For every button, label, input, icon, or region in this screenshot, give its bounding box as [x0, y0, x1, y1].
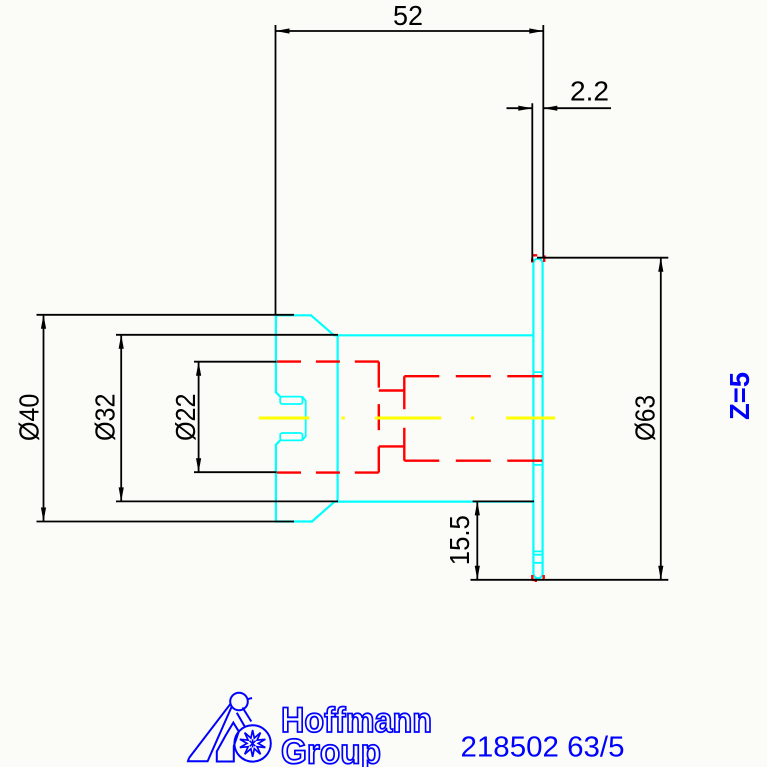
- dim 15.5 top extension (over cyan): [473, 500, 534, 502]
- logo right leg inner: [237, 713, 245, 727]
- dim 52 left extension line: [275, 25, 277, 316]
- dim Ø40 bottom extension: [37, 521, 295, 523]
- dim Ø40 vertical line: [43, 315, 45, 522]
- logo sun star: [240, 730, 265, 757]
- arrow 15.5 bottom: [475, 566, 480, 580]
- slot inner edge vertical: [305, 401, 307, 436]
- bottom edge of Ø32 body: [335, 501, 534, 503]
- lower slot rectangle: [280, 433, 302, 440]
- svg-text:Ø32: Ø32: [90, 394, 121, 442]
- dim 52 line: [276, 30, 544, 32]
- bore Ø22 top hidden line: [277, 360, 379, 362]
- left face lower segment: [275, 445, 277, 522]
- dim Ø63 vertical line: [660, 258, 662, 580]
- logo outer left diagonal: [189, 704, 231, 758]
- arrow Ø63 bottom: [658, 566, 663, 580]
- dim 52 / 2.2 right extension line: [542, 25, 544, 258]
- chamfer edge circle line: [337, 335, 339, 501]
- logo sun center mark: [250, 739, 256, 747]
- centerline dot 2: [471, 417, 474, 420]
- lower slot jog: [303, 436, 306, 440]
- upper face chamfer at slot: [276, 392, 280, 396]
- bore Ø22 bottom hidden line: [277, 471, 379, 473]
- dim Ø22 bottom extension: [194, 471, 277, 473]
- svg-text:Ø22: Ø22: [170, 394, 201, 442]
- svg-text:Group: Group: [281, 733, 381, 767]
- left face upper segment: [275, 315, 277, 392]
- arrow 52 right: [529, 28, 543, 33]
- flange connector line 1: [533, 371, 542, 373]
- centerline dash 2: [375, 417, 441, 420]
- flange bottom hidden bits: [532, 575, 544, 581]
- centerline dot 1: [342, 417, 345, 420]
- svg-text:218502 63/5: 218502 63/5: [461, 732, 625, 764]
- arrow Ø63 top: [658, 258, 663, 272]
- arrow Ø32 bottom: [119, 487, 124, 501]
- arrow 52 left: [276, 28, 290, 33]
- bore Ø17 top hidden line: [404, 375, 542, 377]
- dim Ø40 top extension: [37, 314, 295, 316]
- logo house pentagon: [217, 723, 239, 762]
- bore step vertical at depth: [378, 362, 380, 473]
- top edge of collar (Ø40): [276, 314, 311, 316]
- small bore top line: [379, 389, 405, 391]
- arrow Ø40 top: [41, 315, 46, 329]
- logo foot and inner diagonal: [188, 707, 232, 762]
- centerline dash 3: [506, 417, 555, 420]
- flange Ø63 rounded outline: [533, 259, 542, 579]
- bore Ø17 bottom hidden line: [404, 460, 542, 462]
- flange connector line 4: [533, 554, 542, 556]
- upper slot jog: [303, 397, 306, 401]
- flange connector line 3: [533, 550, 542, 552]
- arrow 2.2 right (outside): [543, 106, 557, 111]
- flange connector line 5: [533, 562, 542, 564]
- dim 2.2 right stub: [543, 107, 611, 109]
- svg-text:Ø40: Ø40: [14, 394, 45, 442]
- dim 15.5 vertical line: [476, 501, 478, 579]
- small bore bottom line: [379, 445, 405, 447]
- svg-text:Ø63: Ø63: [630, 395, 661, 441]
- svg-text:52: 52: [393, 0, 423, 31]
- bore step vertical 2: [403, 376, 405, 461]
- logo sun circle: [234, 725, 270, 761]
- dim Ø22 vertical line: [198, 362, 200, 473]
- dim Ø32 vertical line: [120, 335, 122, 502]
- dim Ø22 top extension: [194, 361, 277, 363]
- upper slot rectangle: [280, 397, 302, 404]
- dim Ø32 bottom extension: [116, 500, 338, 502]
- svg-text:15.5: 15.5: [444, 515, 475, 565]
- arrow Ø40 bottom: [41, 508, 46, 522]
- arrow 2.2 left (outside): [518, 106, 532, 111]
- dim Ø32 top extension: [116, 334, 338, 336]
- logo head circle: [230, 693, 248, 711]
- dim Ø63 / 15.5 bottom extension: [471, 579, 669, 581]
- logo right leg outer: [243, 708, 252, 722]
- bottom chamfer collar to Ø32: [312, 502, 335, 522]
- flange connector line 2: [533, 464, 542, 466]
- centerline dash 1: [259, 417, 310, 420]
- dim 2.2 left stub: [507, 107, 533, 109]
- logo head notch: [248, 698, 252, 699]
- top chamfer collar to Ø32: [311, 315, 334, 335]
- dim Ø63 top extension: [537, 257, 668, 259]
- arrow 15.5 top: [475, 501, 480, 515]
- top edge of Ø32 body: [334, 334, 533, 336]
- flange top hidden bits: [532, 255, 546, 262]
- arrow Ø22 top: [196, 362, 201, 376]
- svg-text:2.2: 2.2: [570, 76, 609, 107]
- svg-text:Z=5: Z=5: [724, 372, 755, 420]
- arrow Ø32 top: [119, 335, 124, 349]
- bottom edge of collar (Ø40): [276, 520, 312, 522]
- lower face chamfer at slot: [276, 440, 280, 444]
- dim 2.2 left extension line: [531, 103, 533, 261]
- arrow Ø22 bottom: [196, 458, 201, 472]
